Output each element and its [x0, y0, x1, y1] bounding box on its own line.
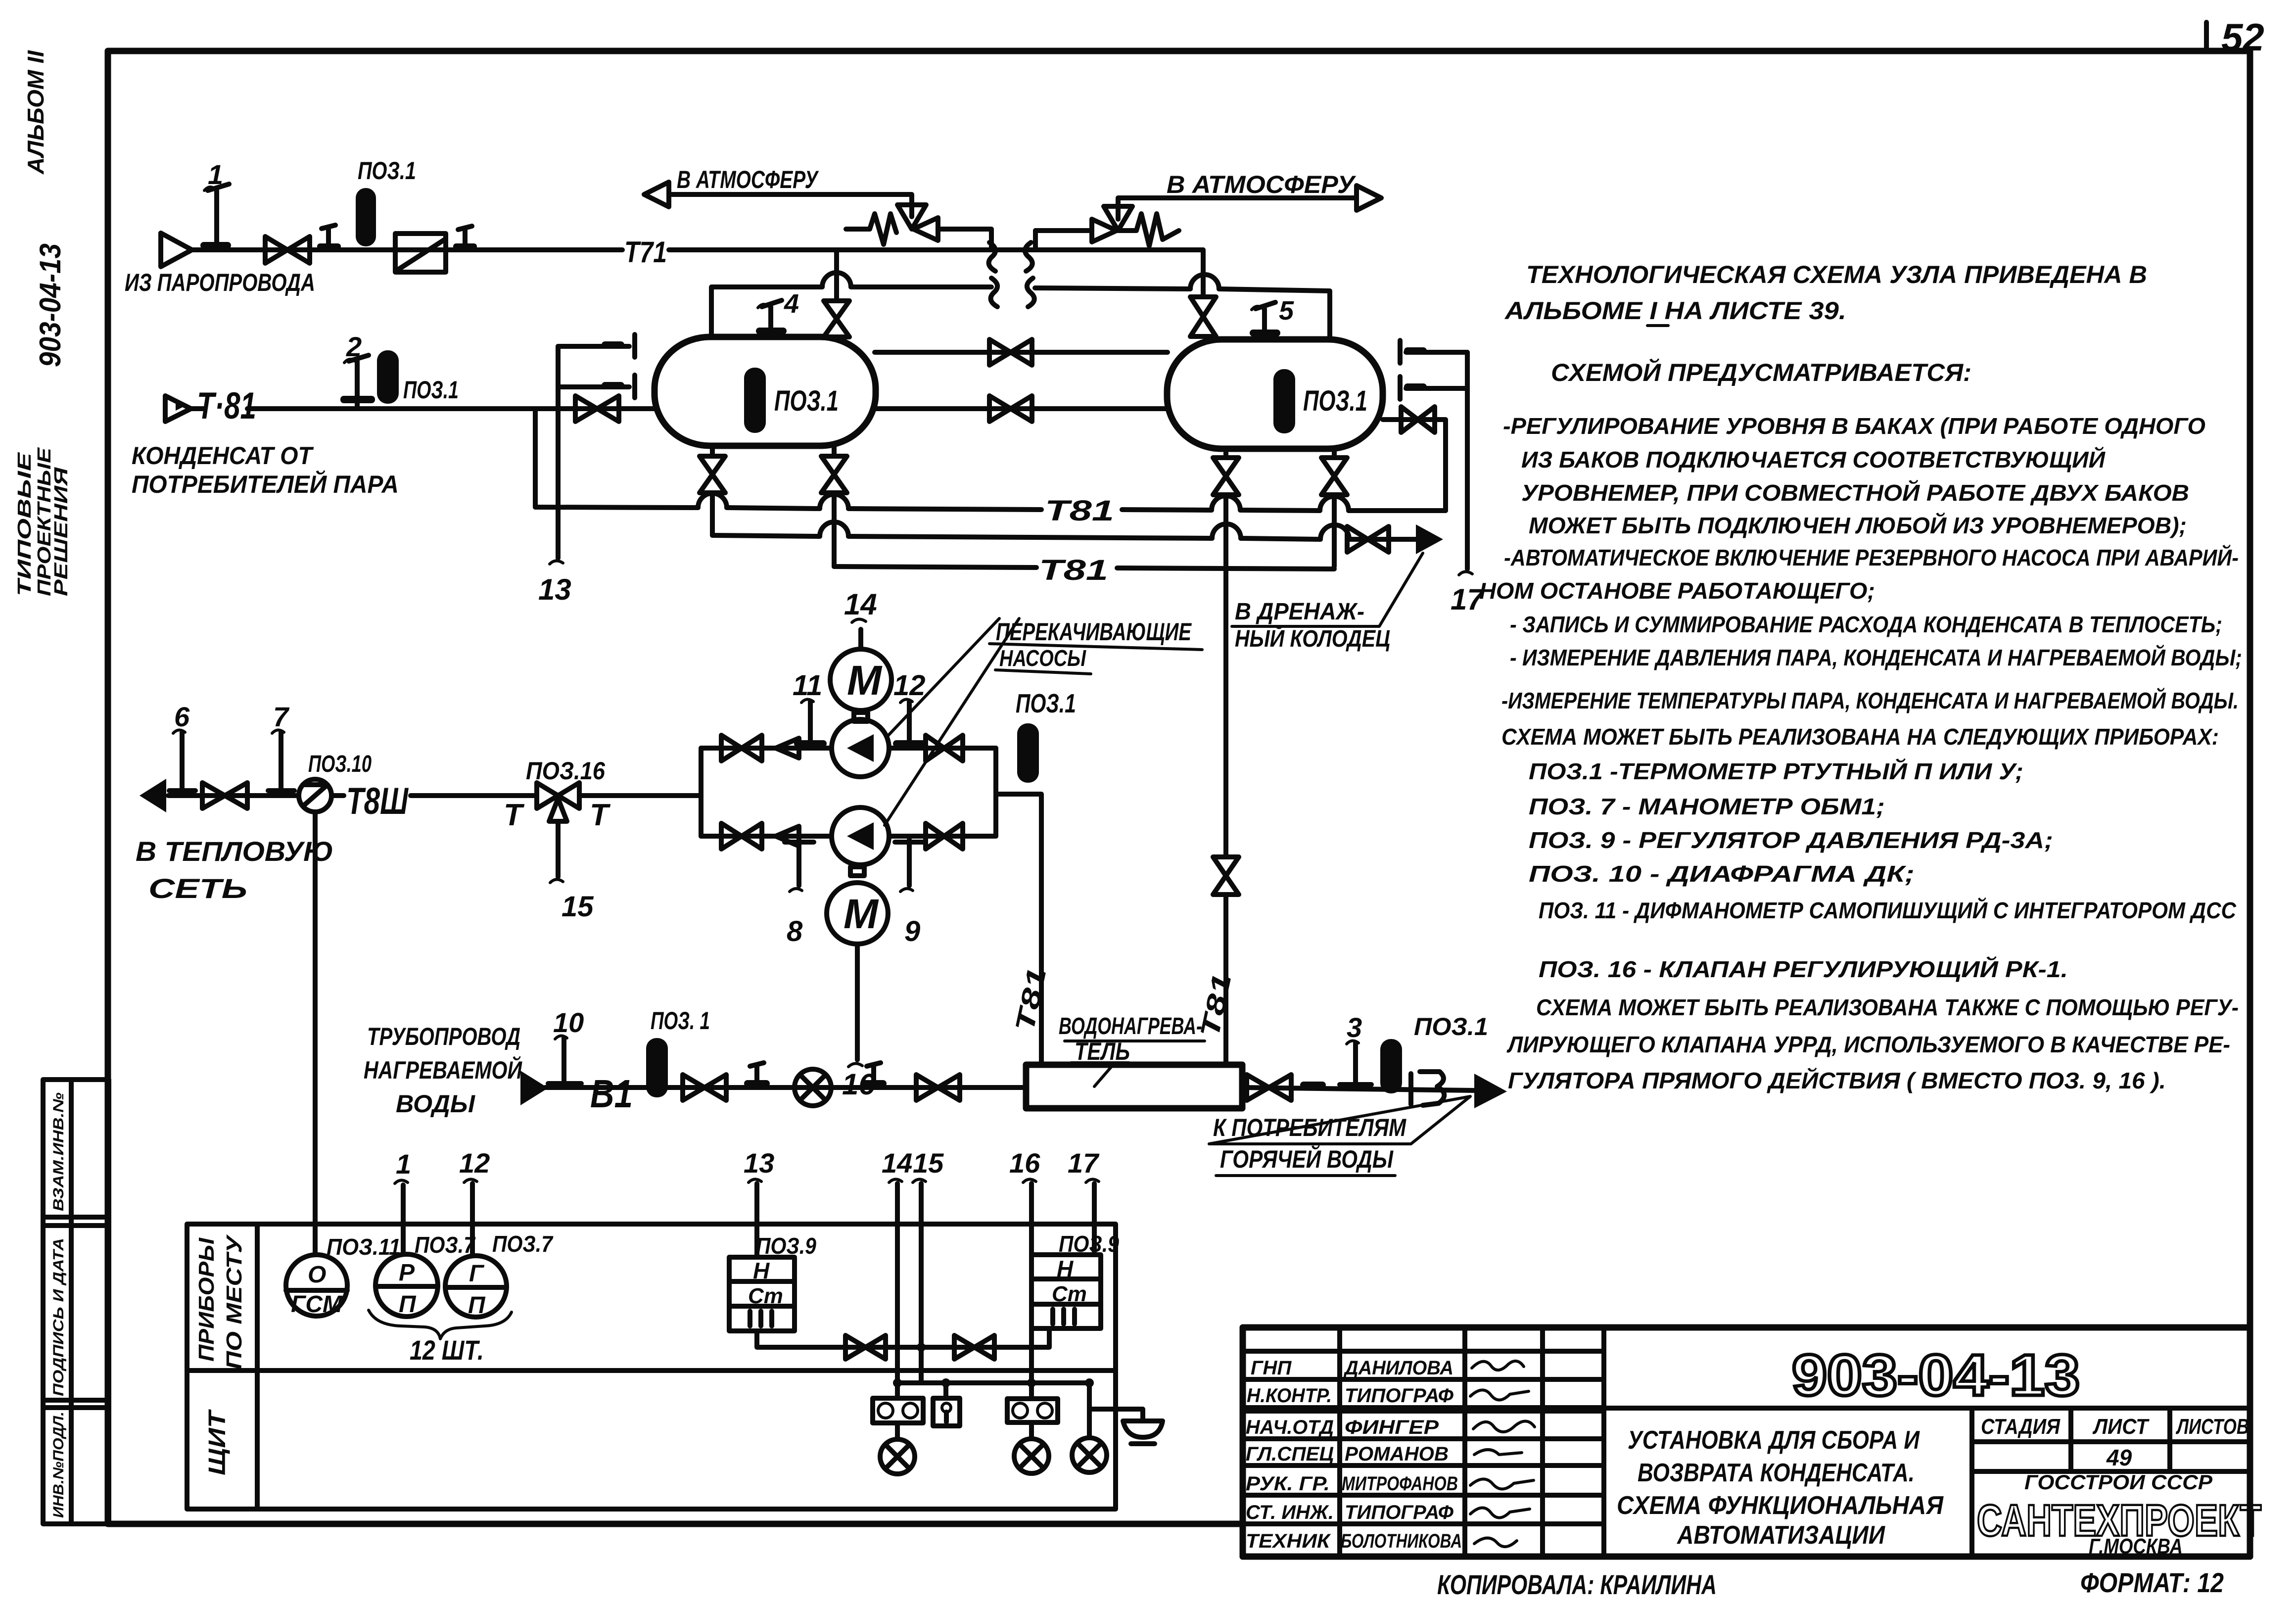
svg-text:4: 4: [784, 289, 799, 319]
svg-text:15: 15: [562, 891, 594, 923]
valve on network line: [202, 783, 247, 808]
level impulse line to 17: [1451, 352, 1485, 616]
condensate inlet line T-81: [165, 385, 655, 427]
instrument tap 1: [200, 159, 231, 250]
svg-text:СТ. ИНЖ.: СТ. ИНЖ.: [1246, 1502, 1334, 1523]
svg-text:ТЕХНОЛОГИЧЕСКАЯ СХЕМА УЗЛА: ТЕХНОЛОГИЧЕСКАЯ СХЕМА УЗЛА ПРИВЕДЕНА В: [1526, 261, 2147, 288]
label v drenazhnyi kolodets: [1232, 553, 1423, 652]
svg-text:Т81: Т81: [1045, 495, 1114, 527]
svg-text:14: 14: [844, 588, 877, 621]
tap pin 2: [453, 226, 477, 250]
svg-text:БОЛОТНИКОВА: БОЛОТНИКОВА: [1341, 1530, 1462, 1552]
svg-text:5: 5: [1279, 296, 1294, 326]
svg-text:ВОДОНАГРЕВА-: ВОДОНАГРЕВА-: [1059, 1013, 1202, 1040]
right vent line to atmosphere: [1118, 171, 1381, 219]
water heater: [1026, 1013, 1242, 1108]
svg-text:49: 49: [2106, 1445, 2132, 1470]
drawing title: [1617, 1426, 1944, 1550]
svg-text:О: О: [308, 1262, 326, 1288]
relay block C with lamp: [1007, 1383, 1058, 1473]
svg-text:ФИНГЕР: ФИНГЕР: [1345, 1417, 1439, 1438]
tap pin outlet: [1300, 1082, 1326, 1088]
impulse tap 7: [268, 701, 294, 791]
svg-text:ТИПОВЫЕ: ТИПОВЫЕ: [14, 452, 35, 596]
svg-text:ПЕРЕКАЧИВАЮЩИЕ: ПЕРЕКАЧИВАЮЩИЕ: [996, 618, 1192, 646]
svg-text:ВОДЫ: ВОДЫ: [396, 1090, 475, 1118]
svg-text:11: 11: [793, 669, 822, 702]
tap pin water 2: [861, 1063, 887, 1087]
impulse tap 3: [1340, 1012, 1371, 1085]
valve on outlet: [1247, 1075, 1291, 1100]
svg-text:ПО МЕСТУ: ПО МЕСТУ: [222, 1234, 246, 1370]
svg-text:ПОЗ.9: ПОЗ.9: [756, 1233, 816, 1259]
svg-text:ПРИБОРЫ: ПРИБОРЫ: [194, 1237, 219, 1362]
svg-text:В АТМОСФЕРУ: В АТМОСФЕРУ: [677, 166, 819, 193]
flow sight glass: [795, 1069, 831, 1106]
stage sheet columns: [1972, 1408, 2261, 1559]
svg-text:ПОЗ.16: ПОЗ.16: [526, 757, 606, 785]
svg-text:Т81: Т81: [1039, 554, 1108, 586]
svg-text:ИЗ ПАРОПРОВОДА: ИЗ ПАРОПРОВОДА: [125, 269, 315, 296]
svg-text:ПОЗ. 11 - ДИФМАНОМЕТР САМОПИШ: ПОЗ. 11 - ДИФМАНОМЕТР САМОПИШУЩИЙ С ИНТЕ…: [1539, 898, 2237, 923]
svg-text:ПОЗ. 9 - РЕГУЛЯТОР ДАВЛЕНИЯ: ПОЗ. 9 - РЕГУЛЯТОР ДАВЛЕНИЯ РД-3А;: [1529, 827, 2053, 853]
arrow heated water inlet: [520, 1071, 548, 1105]
pump 1 outlet valve: [889, 735, 996, 761]
svg-text:ПОЗ. 10 - ДИАФРАГМА ДК;: ПОЗ. 10 - ДИАФРАГМА ДК;: [1529, 861, 1915, 887]
impulse tap 9: [895, 840, 924, 947]
svg-text:ТЕХНИК: ТЕХНИК: [1246, 1530, 1331, 1552]
svg-text:ТИПОГРАФ: ТИПОГРАФ: [1345, 1502, 1454, 1523]
svg-text:РОМАНОВ: РОМАНОВ: [1345, 1443, 1449, 1465]
svg-text:ПОЗ.1: ПОЗ.1: [1303, 385, 1367, 417]
svg-text:16: 16: [1009, 1147, 1040, 1179]
label kondensat ot potrebitelei para: [132, 442, 399, 498]
condensate header 2 / drain line: [712, 522, 1416, 539]
svg-text:Т: Т: [504, 798, 525, 832]
heat network discharge line: [168, 793, 537, 798]
pressure regulator poz.9 left: [729, 1233, 816, 1331]
wire 17 to panel: [1068, 1147, 1100, 1255]
svg-text:ПОЗ.11: ПОЗ.11: [327, 1234, 401, 1260]
margin label 903-04-13 rotated: [34, 243, 67, 367]
svg-text:ЛИСТ: ЛИСТ: [2092, 1415, 2150, 1439]
margin label Album: [23, 50, 48, 175]
svg-text:Т: Т: [590, 798, 611, 832]
svg-text:ПОЗ.1: ПОЗ.1: [774, 385, 839, 417]
tank2 bottom drain valves: [1213, 449, 1347, 567]
pump 1: [832, 719, 889, 777]
valve on water line right: [916, 1075, 960, 1100]
svg-text:ГУЛЯТОРА ПРЯМОГО ДЕЙСТВИЯ: ГУЛЯТОРА ПРЯМОГО ДЕЙСТВИЯ ( ВМЕСТО ПОЗ. …: [1508, 1068, 2166, 1093]
tank1 outer loop to header: [533, 409, 538, 507]
impulse tap 11: [793, 669, 827, 747]
svg-text:СЕТЬ: СЕТЬ: [148, 873, 247, 904]
tap pin: [317, 225, 341, 250]
panel table: [187, 1224, 1116, 1509]
valve on water line left: [683, 1075, 726, 1100]
margin label Tipovye proektnye resheniya: [14, 447, 72, 596]
impulse tap 6: [169, 701, 195, 791]
svg-text:ИЗ БАКОВ ПОДКЛЮЧАЕТСЯ СООТВЕТС: ИЗ БАКОВ ПОДКЛЮЧАЕТСЯ СООТВЕТСТВУЮЩИЙ: [1521, 447, 2106, 473]
svg-text:Н: Н: [753, 1258, 770, 1283]
svg-text:903-04-13: 903-04-13: [34, 243, 67, 367]
svg-text:В1: В1: [590, 1072, 633, 1116]
shield bus: [893, 1378, 1094, 1387]
svg-text:-ИЗМЕРЕНИЕ ТЕМПЕРАТУРЫ ПАРА, К: -ИЗМЕРЕНИЕ ТЕМПЕРАТУРЫ ПАРА, КОНДЕНСАТА …: [1501, 688, 2239, 713]
pump 1 branch valves: [701, 735, 832, 761]
svg-text:СХЕМОЙ ПРЕДУСМАТРИВАЕТСЯ:: СХЕМОЙ ПРЕДУСМАТРИВАЕТСЯ:: [1551, 358, 1971, 386]
svg-text:ГЛ.СПЕЦ: ГЛ.СПЕЦ: [1246, 1443, 1334, 1465]
arrow to hot water consumers: [1474, 1074, 1507, 1108]
tank interconnect line lower: [876, 396, 1168, 422]
brace 12 sht: [369, 1310, 512, 1366]
regulating valve poz.16: [504, 757, 611, 923]
svg-text:КОНДЕНСАТ ОТ: КОНДЕНСАТ ОТ: [132, 442, 314, 470]
svg-text:ВЗАМ.ИНВ.№: ВЗАМ.ИНВ.№: [50, 1092, 67, 1211]
tank1 level gauge taps: [558, 334, 635, 398]
svg-text:Ст: Ст: [748, 1284, 783, 1308]
label k potrebitelyam goryachei vody: [1209, 1096, 1470, 1176]
heated water supply line: [545, 1085, 1026, 1090]
wire 13 to panel: [744, 1147, 774, 1257]
thermometer poz.1 on outlet: [1380, 1013, 1488, 1093]
motor M lower: [827, 867, 888, 1101]
tank2 vent valve: [1190, 250, 1216, 336]
thermometer poz.1 at pump outlet: [1016, 689, 1076, 783]
svg-text:ПОЗ.1: ПОЗ.1: [1414, 1013, 1488, 1040]
svg-text:ПОЗ.1: ПОЗ.1: [1016, 689, 1076, 718]
svg-text:М: М: [843, 891, 879, 937]
local manometer P poz.7: [375, 1232, 476, 1318]
pressure regulator poz.9 right: [1031, 1231, 1119, 1328]
svg-text:1: 1: [208, 159, 223, 190]
svg-text:Ст: Ст: [1052, 1282, 1087, 1306]
svg-text:2: 2: [346, 331, 362, 362]
footer format: [2080, 1567, 2224, 1598]
svg-text:ВОЗВРАТА КОНДЕНСАТА.: ВОЗВРАТА КОНДЕНСАТА.: [1638, 1459, 1915, 1487]
svg-text:ГНП: ГНП: [1251, 1357, 1292, 1379]
sheet number 52: [2206, 15, 2264, 59]
flow arrow steam inlet: [161, 233, 192, 267]
svg-text:СТАДИЯ: СТАДИЯ: [1981, 1415, 2061, 1439]
right safety valve with spring: [1035, 206, 1179, 250]
svg-text:13: 13: [538, 573, 571, 606]
svg-text:ЛИСТОВ: ЛИСТОВ: [2176, 1415, 2249, 1439]
svg-text:НЫЙ КОЛОДЕЦ: НЫЙ КОЛОДЕЦ: [1235, 625, 1390, 652]
instrument 5 on tank2 top: [1250, 296, 1294, 336]
line label T3: [1411, 1072, 1444, 1105]
thermometer poz.1 on condensate line: [377, 350, 459, 404]
left stamp boxes: [43, 1080, 109, 1524]
svg-text:М: М: [847, 657, 883, 704]
svg-text:СХЕМА ФУНКЦИОНАЛЬНАЯ: СХЕМА ФУНКЦИОНАЛЬНАЯ: [1617, 1491, 1944, 1520]
svg-text:ГОССТРОЙ СССР: ГОССТРОЙ СССР: [2024, 1469, 2213, 1494]
svg-text:9: 9: [904, 915, 920, 947]
svg-text:НАГРЕВАЕМОЙ: НАГРЕВАЕМОЙ: [364, 1056, 522, 1084]
svg-text:ТРУБОПРОВОД: ТРУБОПРОВОД: [367, 1023, 520, 1050]
svg-text:ПОЗ.1 -ТЕРМОМЕТР РТУТНЫЙ П ИЛ: ПОЗ.1 -ТЕРМОМЕТР РТУТНЫЙ П ИЛИ У;: [1529, 758, 2023, 784]
left vent line to atmosphere: [644, 166, 912, 217]
svg-text:Н.КОНТР.: Н.КОНТР.: [1247, 1385, 1332, 1407]
svg-text:-РЕГУЛИРОВАНИЕ УРОВНЯ В БАКАХ: -РЕГУЛИРОВАНИЕ УРОВНЯ В БАКАХ (ПРИ РАБОТ…: [1503, 413, 2205, 439]
tank2 outlet valve to header: [1383, 407, 1446, 511]
label truboprovod nagrevaemoi vody: [364, 1023, 522, 1118]
svg-text:903-04-13: 903-04-13: [1792, 1343, 2080, 1408]
svg-text:14: 14: [882, 1147, 912, 1179]
title block: [1243, 1327, 2250, 1557]
lamp D with drain hook: [1072, 1383, 1163, 1472]
svg-text:6: 6: [174, 701, 190, 732]
svg-text:СХЕМА МОЖЕТ БЫТЬ РЕАЛИЗОВАНА: СХЕМА МОЖЕТ БЫТЬ РЕАЛИЗОВАНА ТАКЖЕ С ПОМ…: [1536, 994, 2239, 1020]
condensate drop to heater with valve: [1213, 567, 1239, 1065]
drain arrow: [1416, 524, 1443, 554]
signatures squiggles: [1470, 1361, 1535, 1547]
svg-text:ПОЗ.1: ПОЗ.1: [358, 157, 416, 185]
svg-text:Н: Н: [1057, 1256, 1074, 1281]
svg-text:Г.МОСКВА: Г.МОСКВА: [2089, 1534, 2183, 1559]
tap pin water 1: [744, 1063, 770, 1087]
wire 1 to panel: [395, 1148, 411, 1254]
svg-text:МОЖЕТ БЫТЬ ПОДКЛЮЧЕН ЛЮБОЙ ИЗ: МОЖЕТ БЫТЬ ПОДКЛЮЧЕН ЛЮБОЙ ИЗ УРОВНЕМЕРО…: [1529, 513, 2187, 538]
diaphragm poz.10: [299, 751, 372, 1255]
svg-text:Т8Ш: Т8Ш: [346, 780, 409, 822]
svg-text:13: 13: [744, 1147, 774, 1179]
svg-text:12: 12: [893, 669, 926, 702]
tank 1 (condensate receiver): [655, 337, 876, 446]
svg-text:ФОРМАТ: 12: ФОРМАТ: 12: [2080, 1567, 2224, 1598]
label v teplovuyu set: [136, 836, 333, 904]
motor M upper: [830, 588, 891, 721]
svg-text:Р: Р: [399, 1260, 415, 1286]
svg-text:НАЧ.ОТД: НАЧ.ОТД: [1246, 1417, 1334, 1438]
svg-text:ПОДПИСЬ И ДАТА: ПОДПИСЬ И ДАТА: [50, 1238, 67, 1396]
tank1 vent valve: [824, 250, 849, 337]
svg-text:П: П: [399, 1291, 417, 1318]
svg-text:15: 15: [913, 1147, 944, 1179]
svg-text:УРОВНЕМЕР, ПРИ СОВМЕСТНОЙ РАБО: УРОВНЕМЕР, ПРИ СОВМЕСТНОЙ РАБОТЕ ДВУХ БА…: [1521, 480, 2189, 506]
wire 14 to panel: [882, 1147, 912, 1383]
svg-text:В ДРЕНАЖ-: В ДРЕНАЖ-: [1235, 599, 1364, 625]
svg-text:12 ШТ.: 12 ШТ.: [410, 1334, 484, 1366]
tank1 bottom drain valves: [700, 446, 847, 567]
equalizing line between tank tops: [711, 273, 1330, 339]
svg-text:ПОЗ. 16 - КЛАПАН РЕГУЛИРУЮЩИ: ПОЗ. 16 - КЛАПАН РЕГУЛИРУЮЩИЙ РК-1.: [1539, 956, 2068, 982]
svg-text:ПОЗ.7: ПОЗ.7: [492, 1231, 554, 1257]
left safety valve with spring: [846, 205, 991, 250]
pump 2 outlet valve: [889, 823, 996, 849]
svg-text:8: 8: [787, 915, 803, 947]
key switch B: [933, 1383, 960, 1426]
svg-text:РУК. ГР.: РУК. ГР.: [1246, 1473, 1330, 1495]
svg-text:ДАНИЛОВА: ДАНИЛОВА: [1343, 1357, 1453, 1379]
pump suction/discharge manifold: [579, 748, 1041, 1065]
impulse tap 8: [785, 840, 814, 947]
svg-text:Т71: Т71: [624, 236, 667, 269]
svg-text:7: 7: [273, 701, 290, 732]
impulse tap 12: [893, 669, 926, 747]
thermometer poz.1 on steam line: [356, 157, 416, 246]
svg-text:52: 52: [2221, 15, 2264, 59]
arrow to heat network: [140, 779, 166, 812]
svg-text:ЩИТ: ЩИТ: [204, 1409, 231, 1475]
svg-text:НОМ ОСТАНОВЕ РАБОТАЮЩЕГО;: НОМ ОСТАНОВЕ РАБОТАЮЩЕГО;: [1479, 578, 1875, 604]
relay block A with lamp: [873, 1383, 923, 1474]
impulse line between regulators with valves: [757, 1328, 1049, 1359]
svg-text:- ЗАПИСЬ И СУММИРОВАНИЕ РАСХОД: - ЗАПИСЬ И СУММИРОВАНИЕ РАСХОДА КОНДЕНСА…: [1510, 612, 2222, 637]
tank interconnect line upper: [875, 339, 1168, 365]
svg-text:17: 17: [1068, 1147, 1100, 1179]
svg-text:УСТАНОВКА ДЛЯ СБОРА И: УСТАНОВКА ДЛЯ СБОРА И: [1628, 1426, 1920, 1455]
pump 2: [832, 807, 889, 865]
condensate header 1 T81: [535, 493, 1446, 527]
local instrument DSS poz.11: [286, 1234, 401, 1318]
wire 12 to panel: [459, 1147, 490, 1255]
svg-text:ПОЗ.1: ПОЗ.1: [403, 376, 459, 404]
right descriptive text block: [1504, 261, 2147, 386]
title block signatures column texts: [1246, 1357, 1462, 1552]
svg-text:НАСОСЫ: НАСОСЫ: [999, 645, 1086, 671]
tank 2 (condensate receiver): [1167, 339, 1383, 449]
drain valve to drainage well: [1347, 526, 1389, 552]
svg-text:ПОТРЕБИТЕЛЕЙ ПАРА: ПОТРЕБИТЕЛЕЙ ПАРА: [132, 470, 399, 498]
svg-text:ПОЗ.10: ПОЗ.10: [308, 751, 372, 777]
impulse tap 10: [548, 1007, 584, 1084]
svg-text:СХЕМА МОЖЕТ БЫТЬ РЕАЛИЗОВАНА: СХЕМА МОЖЕТ БЫТЬ РЕАЛИЗОВАНА НА СЛЕДУЮЩИ…: [1501, 724, 2219, 750]
wire 16 to panel: [1009, 1147, 1040, 1383]
tank1 inlet valve: [575, 396, 619, 422]
svg-text:- ИЗМЕРЕНИЕ ДАВЛЕНИЯ ПАРА, К: - ИЗМЕРЕНИЕ ДАВЛЕНИЯ ПАРА, КОНДЕНСАТА И …: [1510, 645, 2242, 670]
svg-text:РЕШЕНИЯ: РЕШЕНИЯ: [51, 467, 72, 596]
check valve: [395, 234, 446, 272]
svg-text:КОПИРОВАЛА: КРАИЛИНА: КОПИРОВАЛА: КРАИЛИНА: [1437, 1569, 1717, 1600]
svg-text:1: 1: [396, 1148, 411, 1180]
instrument 4 on tank1 top: [756, 289, 799, 334]
valve on steam line: [265, 236, 310, 263]
label perekachivayushchie nasosy with leaders: [885, 618, 1202, 825]
svg-text:АЛЬБОМ II: АЛЬБОМ II: [23, 50, 48, 175]
svg-text:ЛИРУЮЩЕГО КЛАПАНА УРРД, И: ЛИРУЮЩЕГО КЛАПАНА УРРД, ИСПОЛЬЗУЕМОГО В …: [1506, 1032, 2230, 1057]
pump 2 branch valves: [701, 823, 832, 849]
svg-text:В АТМОСФЕРУ: В АТМОСФЕРУ: [1167, 171, 1357, 198]
steam supply line T71: [189, 247, 1203, 252]
svg-text:МИТРОФАНОВ: МИТРОФАНОВ: [1342, 1473, 1458, 1495]
svg-text:П: П: [468, 1292, 486, 1319]
condensate header 3 T81: [834, 554, 1334, 586]
underline album I: [1647, 324, 1668, 327]
svg-text:3: 3: [1347, 1012, 1362, 1043]
svg-text:ИНВ.№ПОДЛ.: ИНВ.№ПОДЛ.: [50, 1412, 67, 1518]
level impulse line to 13: [538, 346, 571, 606]
svg-text:ГОРЯЧЕЙ ВОДЫ: ГОРЯЧЕЙ ВОДЫ: [1220, 1145, 1394, 1173]
svg-text:-АВТОМАТИЧЕСКОЕ ВКЛЮЧЕНИЕ РЕЗЕ: -АВТОМАТИЧЕСКОЕ ВКЛЮЧЕНИЕ РЕЗЕРВНОГО НАС…: [1504, 545, 2239, 570]
pipe break squiggles: [989, 242, 1034, 307]
local manometer G poz.7: [445, 1231, 554, 1319]
tank2 level gauge taps: [1400, 340, 1467, 399]
footer copied-by: [1437, 1569, 1717, 1600]
svg-text:В ТЕПЛОВУЮ: В ТЕПЛОВУЮ: [136, 836, 333, 867]
svg-text:10: 10: [553, 1007, 584, 1038]
instrument tap 2: [340, 331, 375, 406]
svg-text:АЛЬБОМЕ I НА ЛИСТЕ 39.: АЛЬБОМЕ I НА ЛИСТЕ 39.: [1504, 297, 1846, 325]
svg-text:12: 12: [459, 1147, 490, 1179]
thermometer poz.1 on water line: [646, 1007, 710, 1097]
wire 15 to panel: [913, 1147, 944, 1383]
svg-text:ГСМ: ГСМ: [291, 1291, 343, 1318]
svg-text:Т·81: Т·81: [197, 385, 256, 427]
svg-text:ПОЗ.7: ПОЗ.7: [415, 1232, 476, 1258]
svg-text:ПОЗ.9: ПОЗ.9: [1059, 1231, 1119, 1257]
svg-text:ПОЗ. 7 - МАНОМЕТР ОБМ1;: ПОЗ. 7 - МАНОМЕТР ОБМ1;: [1529, 794, 1885, 819]
svg-text:ТИПОГРАФ: ТИПОГРАФ: [1345, 1385, 1454, 1407]
hot water outlet line: [1242, 1087, 1477, 1090]
svg-text:Г: Г: [469, 1261, 485, 1287]
svg-text:АВТОМАТИЗАЦИИ: АВТОМАТИЗАЦИИ: [1676, 1521, 1885, 1550]
svg-text:ПОЗ. 1: ПОЗ. 1: [651, 1007, 710, 1035]
